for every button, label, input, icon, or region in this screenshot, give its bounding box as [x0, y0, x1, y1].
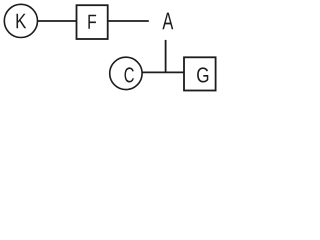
label C: [124, 67, 133, 82]
box G: [184, 57, 216, 90]
wire F to A: [108, 20, 149, 22]
label G: [197, 67, 208, 82]
circle K: [4, 4, 37, 37]
node A label: [162, 13, 173, 30]
label F: [88, 15, 96, 29]
wire C to G: [142, 71, 184, 73]
box F: [77, 5, 108, 39]
label K: [16, 14, 26, 29]
wire A down to C-G wire: [165, 40, 167, 73]
wire K to F: [38, 20, 77, 22]
circle C: [110, 57, 142, 89]
